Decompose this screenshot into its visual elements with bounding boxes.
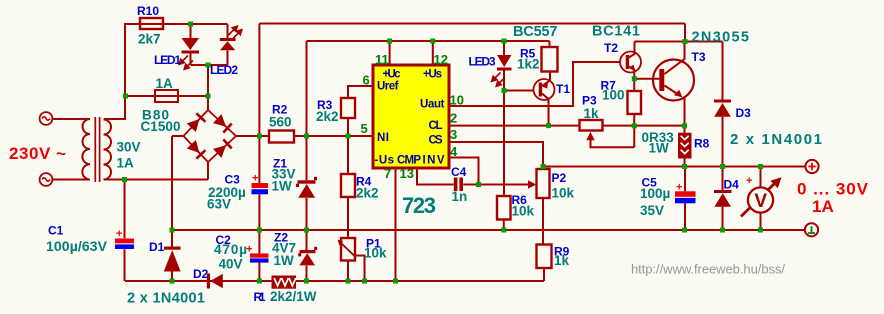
svg-text:D3: D3 (736, 106, 752, 120)
svg-text:2 x 1N4001: 2 x 1N4001 (127, 291, 205, 307)
svg-text:100: 100 (602, 88, 625, 103)
svg-text:6: 6 (363, 73, 370, 88)
svg-text:10k: 10k (552, 186, 575, 201)
svg-text:LED2: LED2 (210, 63, 238, 77)
svg-text:1k: 1k (584, 106, 600, 121)
svg-text:10: 10 (450, 93, 464, 108)
svg-text:BC141: BC141 (592, 24, 640, 40)
svg-text:Uref: Uref (377, 81, 399, 93)
svg-text:LED3: LED3 (469, 55, 496, 69)
svg-text:4: 4 (450, 144, 458, 159)
svg-text:+Uc: +Uc (383, 69, 402, 81)
svg-text:C1500: C1500 (141, 119, 181, 134)
svg-text:40V: 40V (219, 257, 243, 272)
svg-text:63V: 63V (207, 197, 231, 212)
svg-text:+: + (746, 175, 752, 187)
svg-text:10k: 10k (512, 204, 535, 219)
svg-text:1A: 1A (117, 156, 135, 171)
svg-text:D4: D4 (724, 178, 740, 192)
svg-text:35V: 35V (640, 203, 664, 218)
svg-text:2k2: 2k2 (316, 109, 339, 124)
svg-text:T3: T3 (692, 50, 706, 64)
svg-text:D1: D1 (149, 240, 165, 254)
svg-text:V: V (754, 191, 767, 212)
svg-text:+: + (246, 244, 252, 256)
svg-text:CS: CS (429, 135, 443, 147)
svg-text:LED1: LED1 (154, 53, 181, 67)
svg-text:723: 723 (402, 193, 436, 218)
svg-text:7: 7 (384, 166, 391, 181)
svg-text:P2: P2 (552, 171, 567, 185)
svg-text:230V ~: 230V ~ (9, 144, 66, 163)
svg-text:Uaut: Uaut (420, 99, 445, 111)
svg-text:2: 2 (450, 111, 457, 126)
svg-text:R8: R8 (694, 137, 710, 151)
svg-text:1k2: 1k2 (517, 57, 540, 72)
svg-text:1W: 1W (649, 141, 670, 156)
svg-text:D2: D2 (193, 267, 209, 281)
svg-text:10k: 10k (364, 246, 387, 261)
svg-text:5: 5 (361, 121, 368, 136)
svg-text:560: 560 (269, 115, 292, 130)
svg-text:NI: NI (377, 132, 389, 144)
svg-text:T2: T2 (604, 41, 618, 55)
svg-text:2k2/1W: 2k2/1W (270, 289, 317, 304)
svg-text:30V: 30V (117, 140, 141, 155)
svg-text:CMP: CMP (397, 155, 421, 167)
svg-text:11: 11 (375, 52, 389, 67)
svg-text:12: 12 (434, 52, 448, 67)
svg-text:-Us: -Us (375, 155, 395, 167)
svg-text:2k7: 2k7 (138, 32, 161, 47)
svg-text:1n: 1n (452, 189, 468, 204)
svg-text:+: + (116, 228, 122, 240)
svg-text:C1: C1 (48, 224, 64, 238)
svg-text:+: + (676, 182, 682, 194)
svg-text:+Us: +Us (423, 69, 442, 81)
svg-text:1A: 1A (812, 197, 834, 216)
svg-text:BC557: BC557 (513, 24, 558, 40)
svg-text:2k2: 2k2 (356, 186, 379, 201)
svg-text:100µ: 100µ (640, 186, 670, 201)
svg-text:13: 13 (400, 166, 414, 181)
svg-text:http://www.freeweb.hu/bss/: http://www.freeweb.hu/bss/ (631, 262, 785, 277)
svg-text:+: + (252, 173, 258, 185)
svg-text:0 ... 30V: 0 ... 30V (797, 180, 869, 199)
svg-text:470µ: 470µ (214, 242, 247, 257)
svg-text:T1: T1 (556, 82, 570, 96)
svg-text:R1: R1 (254, 290, 266, 304)
svg-text:1W: 1W (274, 253, 295, 268)
svg-text:1W: 1W (272, 179, 293, 194)
svg-text:2 x 1N4001: 2 x 1N4001 (730, 131, 822, 148)
svg-text:R10: R10 (137, 4, 159, 18)
svg-text:100µ/63V: 100µ/63V (46, 238, 108, 254)
svg-text:2N3055: 2N3055 (692, 30, 750, 46)
svg-text:C4: C4 (451, 165, 467, 179)
svg-text:CL: CL (429, 120, 443, 132)
svg-text:1k: 1k (554, 253, 570, 268)
svg-text:1A: 1A (156, 76, 174, 91)
svg-text:3: 3 (450, 127, 457, 142)
